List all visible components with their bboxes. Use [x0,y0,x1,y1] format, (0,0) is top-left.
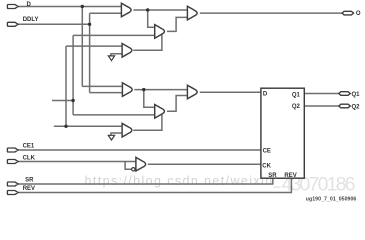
wire clock buffer output to block CK [148,163,261,165]
wire CE1 input to block CE [18,149,261,151]
wire REV input to block REV pin [18,178,291,192]
input pad CE1 [7,148,18,152]
wire net N1 to mux M6 input b [73,114,155,116]
svg-text:ug190_7_01_050906: ug190_7_01_050906 [306,197,357,203]
svg-text:Q2: Q2 [352,104,361,110]
mux M2 [155,25,165,39]
wire D vertical bus drop [81,7,83,87]
svg-text:CE: CE [263,149,271,155]
clock buffer [136,157,146,171]
ground triangle symbol block 2 [108,135,114,140]
wire mux M5 output to mux M7 input a [134,89,187,91]
svg-text:CE1: CE1 [23,144,35,150]
wire mux M7 output to block D input [200,91,261,93]
mux M5 [122,83,132,97]
junction dot on net N2 [64,125,67,128]
wire mux M4 input b stub [111,54,122,56]
wire CLK input to clock buffer input a [18,161,136,163]
output pad Q2 [339,104,351,108]
junction dot on D line [81,5,84,8]
wire net N2 to mux M4 input a [66,45,122,47]
wire net N1 vertical bus [72,35,74,115]
mux M3 [187,6,197,20]
mux M6 [155,105,165,119]
input pad D [7,5,18,9]
svg-text:CK: CK [262,164,271,170]
wire riser node to mux M2 input a [148,10,155,27]
wire DDLY input horizontal [18,23,90,25]
output pad Q1 [339,92,351,96]
svg-text:Q1: Q1 [352,92,361,98]
input pad DDLY [7,22,18,26]
svg-text:CLK: CLK [23,155,36,161]
wire D input horizontal [18,6,121,8]
wire CLK inverted branch to bubble [125,162,132,170]
mux M8 [122,123,132,137]
wire mux M2 output to mux M3 input b [167,17,187,31]
mux M4 [122,44,132,58]
svg-text:D: D [27,2,32,8]
wire mux M4 output to mux M2 select [133,35,162,51]
junction dot on mux M1 output [146,8,149,11]
wire D to mux M5 input a [82,85,122,87]
wire mux M3 output to pad O [200,12,342,14]
wire DDLY to mux M5 input b [90,92,123,94]
svg-text:D: D [263,92,268,98]
wire net N2 vertical bus [65,46,67,126]
output pad O [342,11,354,15]
svg-text:REV: REV [23,186,35,192]
wire net N1 to mux M2 input b [73,34,155,36]
ground triangle symbol block 1 [108,56,114,61]
svg-text:REV: REV [284,173,296,179]
input pad CLK [7,160,18,164]
wire mux M8 output to mux M6 select [133,115,162,131]
wire DDLY vertical bus [89,13,91,92]
svg-text:https://blog.csdn.net/weixin_: https://blog.csdn.net/weixin_ [85,174,282,188]
wire net N1 left stub [52,100,73,102]
svg-text:SR: SR [268,173,277,179]
wire net N2 left stub to mux M8 input a [54,125,122,127]
junction dot on net N1 [71,99,74,102]
wire block Q2 to pad Q2 [304,105,339,107]
svg-text:DDLY: DDLY [23,17,39,23]
wire riser node to mux M6 input a [144,90,155,108]
mux M1 [121,3,131,17]
wire mux M1 output to mux M3 input a [133,9,187,11]
junction dot on mux M5 output [142,88,145,91]
svg-text:Q2: Q2 [292,104,301,110]
wire block Q1 to pad Q1 [304,93,339,95]
svg-text:Q1: Q1 [292,92,301,98]
IDDR block U1 [261,88,304,178]
mux M7 [187,85,197,99]
input pad SR [7,182,18,186]
input pad REV [7,191,18,195]
svg-text:O: O [356,11,361,17]
junction dot on DDLY line [88,23,91,26]
inverter bubble on clock buffer input b [132,168,135,171]
wire mux M8 input b stub [111,133,122,135]
wire SR input to block SR pin [18,178,273,184]
wire mux M6 output to mux M7 input b [167,96,187,112]
svg-text:SR: SR [25,177,34,183]
wire DDLY to mux M1 input b [90,12,122,14]
